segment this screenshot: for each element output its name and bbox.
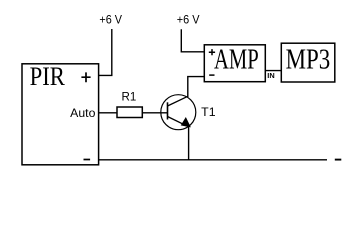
transistor T1 collector diagonal bbox=[168, 96, 188, 106]
transistor T1 emitter arrow bbox=[181, 118, 190, 127]
wire T1 emitter down to rail bbox=[188, 127, 190, 160]
PIR + terminal mark bbox=[81, 72, 90, 82]
transistor T1 emitter diagonal bbox=[168, 117, 189, 127]
MP3 player block bbox=[281, 43, 335, 82]
transistor T1 circle bbox=[161, 95, 196, 130]
resistor R1 bbox=[117, 107, 142, 118]
svg-text:+6 V: +6 V bbox=[177, 13, 200, 27]
wire from +6V right down to AMP + terminal bbox=[181, 29, 204, 52]
AMP + terminal mark bbox=[209, 49, 215, 55]
svg-text:AMP: AMP bbox=[214, 45, 259, 76]
wire AMP output to MP3 IN bbox=[265, 70, 281, 72]
amplifier AMP block bbox=[204, 45, 265, 82]
svg-text:R1: R1 bbox=[122, 90, 137, 104]
bottom negative rail wire bbox=[99, 159, 327, 161]
PIR - terminal mark bbox=[84, 159, 91, 161]
svg-text:PIR: PIR bbox=[30, 62, 66, 91]
wire PIR Auto to R1 bbox=[99, 112, 117, 114]
svg-text:IN: IN bbox=[267, 73, 274, 80]
svg-text:MP3: MP3 bbox=[286, 45, 331, 76]
wire from +6V left down to PIR + terminal bbox=[99, 29, 112, 75]
rail - mark bbox=[335, 159, 342, 161]
wire T1 collector up to AMP - terminal bbox=[188, 77, 205, 97]
AMP - terminal mark bbox=[209, 74, 214, 76]
svg-text:Auto: Auto bbox=[70, 106, 96, 120]
wire R1 to T1 base bbox=[142, 112, 167, 114]
svg-text:T1: T1 bbox=[201, 105, 216, 119]
transistor T1 base bar bbox=[167, 102, 169, 119]
svg-text:+6 V: +6 V bbox=[99, 13, 122, 27]
PIR sensor block bbox=[22, 64, 99, 165]
